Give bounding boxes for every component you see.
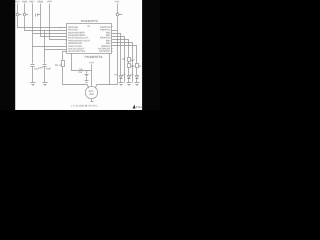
- svg-text:RB6/PGC: RB6/PGC: [100, 29, 110, 32]
- capacitor C1 top: [36, 14, 41, 17]
- pin labels U1 right: [98, 26, 111, 53]
- resistor R4: [128, 58, 131, 62]
- svg-text:VPP: VPP: [47, 1, 52, 4]
- wire buzzer right return: [95, 85, 117, 89]
- wire right pin RB5: [112, 37, 125, 83]
- svg-text:PIC16F877A: PIC16F877A: [85, 55, 104, 59]
- wire R2 down: [128, 68, 130, 76]
- ground GND5: [135, 83, 140, 86]
- svg-text:ZER: ZER: [89, 93, 94, 96]
- svg-text:RB6: RB6: [22, 1, 28, 4]
- svg-text:RB0/INT: RB0/INT: [102, 45, 111, 48]
- svg-text:RB4: RB4: [106, 34, 111, 37]
- svg-text:RA1/AN1: RA1/AN1: [68, 29, 78, 32]
- LED D1: [120, 76, 123, 83]
- svg-text:4M: 4M: [39, 67, 42, 70]
- watermark logo: [133, 105, 143, 109]
- wire right pin RB2: [112, 46, 137, 64]
- pin stubs U1 left: [66, 41, 67, 52]
- wire VSS drop: [72, 54, 92, 71]
- svg-text:RA2/AN2/VREF-: RA2/AN2/VREF-: [68, 31, 85, 34]
- svg-text:RB5: RB5: [106, 31, 111, 34]
- svg-text:RB7: RB7: [29, 1, 35, 4]
- wire terminal T4 vertical: [41, 4, 67, 37]
- svg-text:+5V: +5V: [115, 1, 120, 4]
- svg-text:RA5/AN4/SS/C2OUT: RA5/AN4/SS/C2OUT: [68, 39, 90, 42]
- svg-text:lldata: lldata: [136, 106, 143, 109]
- wire terminal T2 vertical: [25, 4, 67, 31]
- connector J3: [116, 13, 119, 16]
- black letterbox background: [0, 0, 160, 110]
- wire terminal T1 vertical: [18, 4, 67, 28]
- wire right rail long: [117, 4, 119, 85]
- buzzer BZ1 body: [85, 86, 97, 98]
- LED D3: [136, 76, 139, 83]
- svg-text:PIC16F877A: PIC16F877A: [81, 19, 98, 23]
- resistor R3: [136, 64, 139, 68]
- svg-text:( | +4x 1N4148 +5V 0V ): ( | +4x 1N4148 +5V 0V ): [72, 105, 98, 108]
- svg-text:RD7/PSP7: RD7/PSP7: [99, 50, 111, 53]
- svg-text:22pF: 22pF: [46, 67, 52, 70]
- svg-text:GND: GND: [38, 1, 44, 4]
- resistor R2: [128, 64, 131, 68]
- wire R1 to buzzer: [63, 67, 89, 89]
- connector J1: [16, 13, 19, 16]
- wire buzzer bottom lead: [91, 99, 94, 102]
- connector J2: [23, 13, 26, 16]
- svg-text:RA3/AN3/VREF+: RA3/AN3/VREF+: [68, 34, 86, 37]
- svg-text:MCLR/VPP/THV: MCLR/VPP/THV: [68, 50, 85, 53]
- svg-text:RB7/PGD: RB7/PGD: [100, 26, 110, 29]
- svg-text:RA0/AN0: RA0/AN0: [68, 26, 78, 29]
- capacitor C4: [85, 71, 89, 83]
- capacitor C3: [43, 65, 47, 83]
- svg-text:+5V: +5V: [89, 62, 94, 65]
- wire OSC2: [45, 31, 67, 64]
- wire right pin RB4: [112, 40, 129, 64]
- ground GND1: [31, 83, 36, 86]
- capacitor C2: [31, 65, 35, 83]
- svg-text:25V: 25V: [78, 71, 83, 74]
- svg-text:OSC1/CLKIN: OSC1/CLKIN: [68, 45, 82, 48]
- svg-text:BUZ: BUZ: [89, 90, 94, 93]
- svg-text:RB3/PGM: RB3/PGM: [100, 37, 110, 40]
- resistor R1: [62, 61, 65, 67]
- wire IC bottom drop: [109, 54, 111, 85]
- pin stubs U1 right: [112, 27, 113, 52]
- ground GND3: [119, 83, 124, 86]
- svg-text:RC7/RX/DT: RC7/RX/DT: [98, 48, 111, 51]
- svg-text:+5V: +5V: [15, 1, 20, 4]
- white schematic panel: [15, 0, 142, 110]
- wire right pin RB3: [112, 43, 133, 83]
- svg-text:RB2: RB2: [106, 39, 111, 42]
- svg-text:RA4/T0CKI/C1OUT: RA4/T0CKI/C1OUT: [68, 37, 89, 40]
- LED D2: [128, 76, 131, 83]
- wire terminal T5 vertical: [50, 4, 67, 40]
- wire right pin RB6: [112, 34, 121, 76]
- ground GND2: [43, 83, 48, 86]
- svg-text:R9 1k: R9 1k: [55, 64, 62, 67]
- wire buzzer supply: [91, 65, 93, 87]
- wire OSC1: [33, 46, 67, 48]
- svg-text:OSC2/CLKOUT: OSC2/CLKOUT: [68, 48, 85, 51]
- svg-text:RE0/RD/AN5: RE0/RD/AN5: [68, 42, 82, 45]
- svg-text:RB1: RB1: [106, 42, 111, 45]
- IC U1 body: [67, 24, 112, 54]
- wire terminal T3 vertical: [33, 4, 67, 64]
- wire R3 down: [136, 68, 138, 76]
- ground GND4: [127, 83, 132, 86]
- wire right pin RB7: [112, 30, 118, 32]
- wire MCLR branch: [63, 52, 67, 61]
